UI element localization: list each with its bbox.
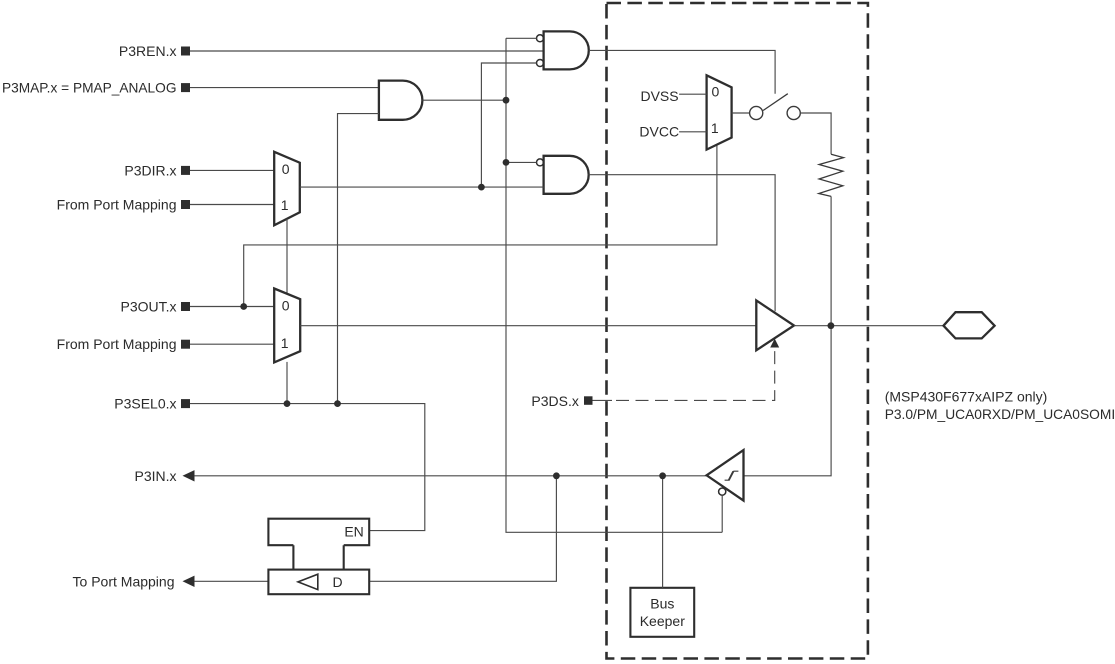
svg-text:DVSS: DVSS xyxy=(640,88,678,104)
wire P3IN.x from schmitt buffer U5 output xyxy=(194,475,706,477)
wire U3 top input from node rail x506 xyxy=(506,161,537,163)
output driver U4 xyxy=(756,300,794,350)
wire U1 bottom input from P3SEL0 rail xyxy=(338,114,379,404)
latch U6 clock triangle xyxy=(298,574,318,589)
terminal square From Port Mapping lower xyxy=(181,340,190,349)
arrowhead P3IN.x xyxy=(183,470,195,481)
terminal square P3MAP.x xyxy=(181,83,190,92)
terminal square P3SEL0.x xyxy=(181,399,190,408)
wire P3MAP.x to gate U1 top input xyxy=(190,87,379,89)
wire switch to resistor R1 xyxy=(800,113,831,154)
mux M2 (P3OUT / port map) xyxy=(274,289,300,363)
svg-text:P3REN.x: P3REN.x xyxy=(119,43,177,59)
svg-text:1: 1 xyxy=(711,120,719,136)
wire M2 select to P3SEL0 line xyxy=(286,362,288,404)
hysteresis symbol U5 xyxy=(725,471,739,480)
latch U6 D box xyxy=(268,570,369,595)
terminal square From Port Mapping upper xyxy=(181,200,190,209)
svg-text:DVCC: DVCC xyxy=(639,124,679,140)
wire U3 output to driver U4 enable xyxy=(589,175,776,312)
junction dot pad rail at resistor xyxy=(828,322,835,329)
svg-text:From Port Mapping: From Port Mapping xyxy=(57,197,177,213)
svg-text:P3IN.x: P3IN.x xyxy=(134,468,176,484)
latch U6 neck xyxy=(293,545,343,569)
terminal square P3DS.x xyxy=(584,396,593,405)
junction dot P3IN at bus keeper branch xyxy=(659,472,666,479)
wire P3OUT.x to mux M2 input 0 xyxy=(190,306,274,308)
wire M1 select from select rail xyxy=(286,219,288,294)
wire P3DIR.x to mux M1 input 0 xyxy=(190,169,274,171)
junction dot M1 output branch xyxy=(478,184,485,191)
schmitt input buffer U5 xyxy=(707,450,744,501)
dashed module boundary box xyxy=(607,3,868,659)
and gate U2 (REN logic, inverted inputs) xyxy=(544,31,589,69)
bubble U2 top input xyxy=(537,35,544,42)
wire R1 bottom to pad rail and schmitt U5 input xyxy=(744,196,832,475)
svg-text:0: 0 xyxy=(712,84,720,100)
bubble U2 bottom input xyxy=(537,60,544,67)
switch S1 contact left xyxy=(750,106,763,119)
and gate U1 (P3MAP) xyxy=(379,81,423,120)
wire To Port Mapping from latch output xyxy=(194,580,268,582)
wire U5 enable from node rail xyxy=(721,495,723,532)
mux M3 (DVSS/DVCC pull select) xyxy=(707,75,732,149)
wire DVSS to M3 input 0 xyxy=(679,93,707,95)
bubble U5 enable xyxy=(719,488,726,495)
bubble U3 top input xyxy=(537,159,544,166)
pad hexagon xyxy=(944,312,995,338)
svg-text:0: 0 xyxy=(282,161,290,177)
and gate U3 (DIR logic) xyxy=(544,156,589,194)
wire From Port Mapping to mux M2 input 1 xyxy=(190,343,274,345)
terminal square P3OUT.x xyxy=(181,302,190,311)
svg-text:1: 1 xyxy=(281,335,289,351)
svg-text:Bus: Bus xyxy=(650,596,674,612)
svg-text:1: 1 xyxy=(281,197,289,213)
svg-text:Keeper: Keeper xyxy=(640,613,685,629)
svg-text:(MSP430F677xAIPZ only): (MSP430F677xAIPZ only) xyxy=(885,388,1048,404)
wire bus keeper to P3IN rail xyxy=(662,476,664,588)
svg-text:P3.0/PM_UCA0RXD/PM_UCA0SOMI: P3.0/PM_UCA0RXD/PM_UCA0SOMI xyxy=(885,406,1115,422)
junction dot P3OUT branch xyxy=(240,303,247,310)
arrowhead P3DS.x into U4 xyxy=(770,339,779,348)
svg-text:P3MAP.x = PMAP_ANALOG: P3MAP.x = PMAP_ANALOG xyxy=(2,80,177,96)
wire M3 output to switch S1 xyxy=(732,112,750,114)
wire U1 output to node rail x506 xyxy=(422,99,506,101)
switch S1 contact right xyxy=(787,106,800,119)
terminal square P3REN.x xyxy=(181,47,190,56)
resistor R1 (pullup/pulldown) xyxy=(819,154,844,196)
svg-text:From Port Mapping: From Port Mapping xyxy=(57,336,177,352)
wire P3REN.x to gate U2 middle input xyxy=(190,50,544,52)
latch U6 EN box xyxy=(268,519,369,546)
wire P3DS.x solid stub xyxy=(593,399,613,401)
svg-text:P3OUT.x: P3OUT.x xyxy=(120,299,176,315)
svg-text:To Port Mapping: To Port Mapping xyxy=(73,573,175,589)
junction dot node rail x506 at U3 top input xyxy=(503,159,510,166)
junction node P3IN to D-latch xyxy=(369,476,556,582)
svg-text:D: D xyxy=(333,574,343,590)
junction dot P3SEL0 at U1 input rail xyxy=(334,400,341,407)
wire P3DS.x dashed to driver U4 drive-strength input xyxy=(616,348,775,401)
wire M1 output to gate U3 bottom input xyxy=(300,186,544,188)
junction dot node rail x506 at U1 output xyxy=(503,97,510,104)
svg-text:P3DS.x: P3DS.x xyxy=(531,393,578,409)
wire U4 output to pad xyxy=(794,325,944,327)
svg-text:P3DIR.x: P3DIR.x xyxy=(124,162,176,178)
junction dot P3IN at latch branch xyxy=(553,472,560,479)
switch S1 lever xyxy=(763,94,788,111)
wire node rail x506 vertical to schmitt enable xyxy=(506,38,722,532)
wire P3OUT node to mux M3 select xyxy=(244,145,717,307)
junction dot P3SEL0 at mux M2 select xyxy=(284,400,291,407)
wire U2 bottom input from mux M1 output node xyxy=(481,63,536,187)
wire DVCC to M3 input 1 xyxy=(679,131,707,133)
wire From Port Mapping to mux M1 input 1 xyxy=(190,204,274,206)
svg-text:0: 0 xyxy=(282,298,290,314)
terminal square P3DIR.x xyxy=(181,166,190,175)
svg-text:EN: EN xyxy=(344,524,363,540)
bus keeper box xyxy=(630,588,694,637)
wire P3SEL0.x to latch EN input xyxy=(190,404,425,531)
wire U2 top input from node rail x506 xyxy=(506,37,537,39)
wire U2 output to switch lever xyxy=(589,50,775,93)
svg-text:P3SEL0.x: P3SEL0.x xyxy=(114,396,176,412)
mux M1 (P3DIR / port map) xyxy=(274,152,300,226)
arrowhead To Port Mapping xyxy=(183,576,195,587)
wire M2 output to driver U4 input xyxy=(300,325,756,327)
